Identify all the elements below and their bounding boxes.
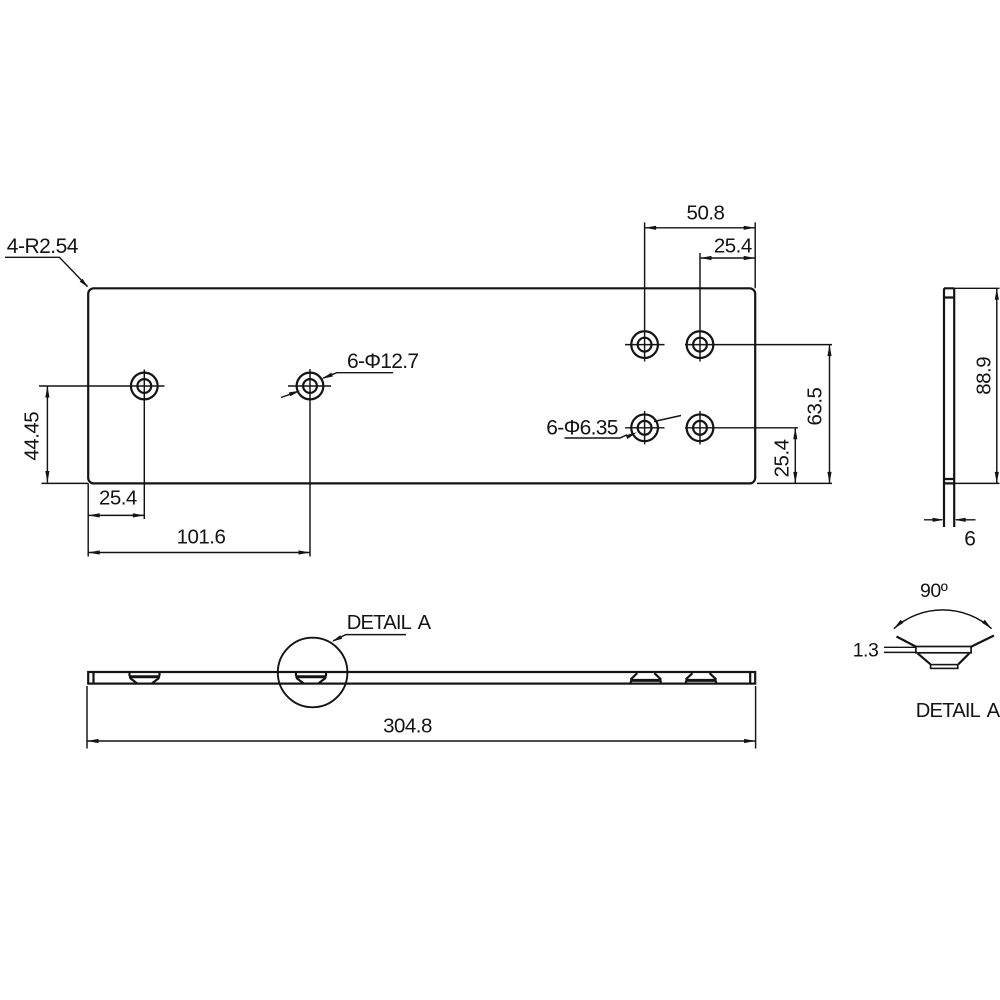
svg-text:DETAIL A: DETAIL A: [916, 700, 1000, 722]
svg-text:25.4: 25.4: [99, 486, 137, 509]
hole H5 centerlines: [625, 411, 665, 445]
svg-text:44.45: 44.45: [21, 412, 44, 461]
svg-text:6-Φ6.35: 6-Φ6.35: [546, 417, 617, 440]
svg-text:6: 6: [964, 528, 975, 551]
svg-text:63.5: 63.5: [804, 387, 827, 425]
hole H4 outer circle: [687, 331, 714, 358]
dimension 25.4 right vertical: [794, 428, 796, 484]
dimension 63.5 right: [757, 345, 832, 484]
svg-text:50.8: 50.8: [687, 202, 725, 225]
hole H3 centerlines: [625, 222, 665, 361]
hole H4 centerlines: [685, 253, 832, 362]
detail A: 1.3 land band: [916, 647, 971, 653]
side view chamfer lines: [944, 298, 954, 480]
svg-text:90º: 90º: [920, 580, 948, 602]
detail A: lower cone: [918, 653, 970, 664]
hole H6 centerlines: [685, 411, 798, 445]
countersink profile hole H4 (bottom type): [686, 673, 716, 679]
dimension 304.8: [87, 686, 756, 749]
hole H2 centerlines: [288, 369, 331, 557]
leader stub at hole H5: [654, 416, 681, 422]
svg-text:101.6: 101.6: [177, 525, 226, 548]
dimension 6 thickness: [924, 519, 976, 521]
dimension 44.45 left: [42, 386, 89, 483]
hole H3 outer circle: [631, 331, 658, 358]
leader 4-R2.54: [5, 257, 88, 286]
leader 1.3: [884, 647, 916, 652]
front view bar outline: [88, 672, 755, 684]
svg-text:6-Φ12.7: 6-Φ12.7: [347, 350, 418, 373]
front view end chamfer lines: [94, 672, 751, 684]
hole H4 inner circle: [693, 338, 707, 352]
dimension 88.9: [954, 288, 999, 483]
top view plate outline: [88, 288, 755, 483]
side view outline: [944, 288, 954, 527]
hole H1 outer circle: [131, 373, 158, 400]
hole H3 inner circle: [638, 338, 652, 352]
dimension 50.8 top: [645, 222, 756, 288]
hole H5 outer circle: [631, 414, 658, 441]
svg-text:DETAIL A: DETAIL A: [347, 612, 432, 634]
hole H2 outer circle: [297, 373, 324, 400]
svg-text:4-R2.54: 4-R2.54: [7, 235, 79, 258]
dimension 25.4 lower left: [88, 483, 144, 556]
svg-text:25.4: 25.4: [770, 439, 793, 477]
detail A circle: [278, 638, 348, 708]
hole H6 inner circle: [693, 421, 707, 435]
detail A: 90 degree arc dimension: [894, 610, 992, 629]
hole H1 inner circle: [137, 379, 151, 393]
svg-text:25.4: 25.4: [714, 234, 752, 257]
svg-text:304.8: 304.8: [383, 715, 432, 738]
detail A: hole bottom: [931, 665, 958, 669]
leader stub at hole H2: [281, 394, 290, 397]
leader 6-PHI12.7: [323, 373, 393, 378]
hole H1 centerlines: [39, 370, 165, 520]
svg-text:1.3: 1.3: [853, 640, 879, 662]
hole H5 inner circle: [638, 421, 652, 435]
detail A: countersink V cone: [897, 636, 995, 648]
countersink profile hole H3 (bottom type): [631, 673, 661, 679]
countersink profile hole H2 (top type): [296, 672, 326, 676]
hole H2 inner circle: [303, 379, 317, 393]
countersink profile hole H1 (top type): [130, 672, 160, 676]
dimension 101.6: [88, 552, 310, 554]
svg-text:88.9: 88.9: [973, 357, 996, 395]
detail A leader: [333, 635, 406, 641]
leader 6-PHI6.35: [565, 435, 628, 438]
hole H6 outer circle: [687, 414, 714, 441]
dimension 25.4 top right: [700, 257, 755, 259]
